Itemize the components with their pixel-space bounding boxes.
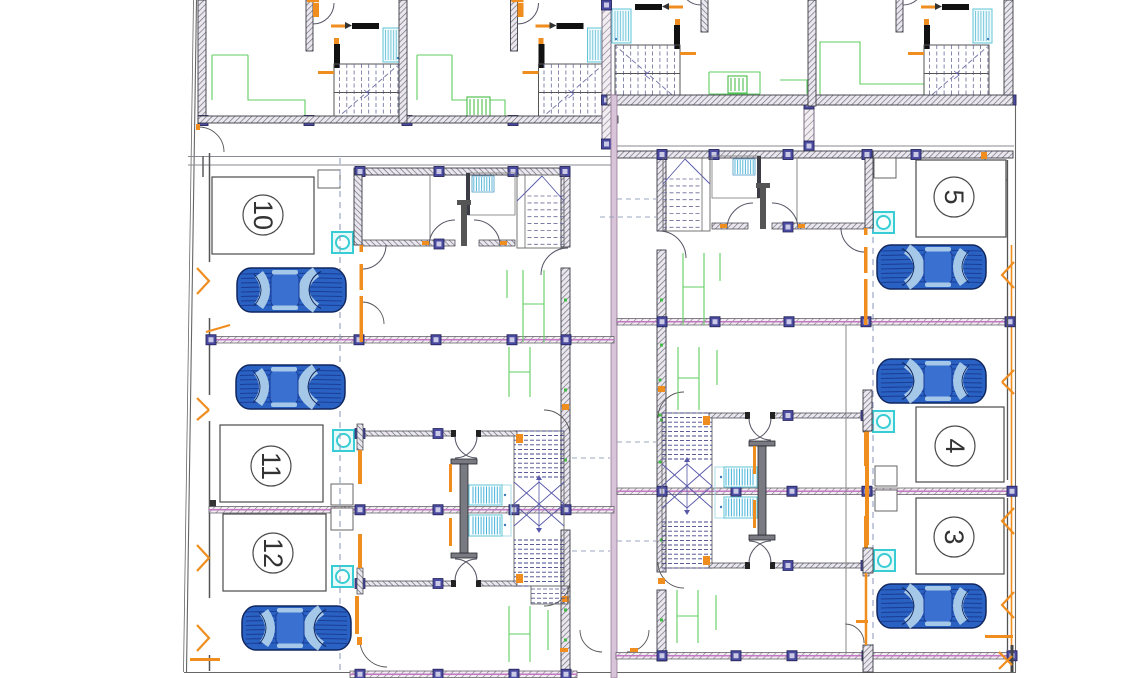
svg-text:11: 11 bbox=[256, 452, 286, 480]
svg-text:4: 4 bbox=[940, 438, 970, 453]
svg-text:10: 10 bbox=[248, 200, 278, 230]
svg-text:5: 5 bbox=[939, 189, 969, 204]
svg-text:12: 12 bbox=[258, 538, 288, 568]
svg-text:3: 3 bbox=[939, 529, 969, 544]
